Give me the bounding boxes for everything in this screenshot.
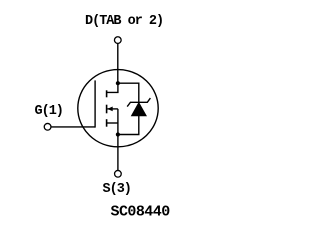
wire: gate terminal to gate bar [51, 126, 95, 128]
svg-text:G(1): G(1) [35, 104, 63, 119]
wire: drain stub [107, 83, 118, 92]
channel segment (source region) [106, 119, 108, 127]
gate terminal circle [44, 123, 51, 130]
source terminal circle [115, 170, 122, 177]
channel segment (drain region) [106, 90, 108, 97]
body diode D1 (zener style) cathode bar [127, 98, 150, 107]
gate bar [94, 80, 96, 127]
wire: source junction to source terminal [117, 135, 119, 171]
svg-text:S(3): S(3) [103, 182, 131, 197]
wire: body diode anode to source node [118, 116, 139, 135]
wire: body to source junction [117, 109, 119, 135]
wire: source stub [107, 122, 118, 124]
svg-text:D(TAB or 2): D(TAB or 2) [85, 14, 163, 29]
arrow head pointing to channel [107, 107, 112, 112]
svg-text:SC08440: SC08440 [111, 203, 171, 220]
junction dot at drain node [116, 81, 120, 85]
transistor Q1 envelope circle [78, 70, 158, 147]
junction dot at source node [116, 132, 120, 136]
body diode D1 triangle [131, 103, 146, 116]
wire: drain terminal to drain junction [117, 44, 119, 83]
wire: body stub with substrate arrow [107, 108, 118, 110]
wire: drain node to body diode cathode [118, 83, 139, 102]
drain terminal circle [114, 37, 121, 44]
channel segment (body region) [106, 105, 108, 114]
